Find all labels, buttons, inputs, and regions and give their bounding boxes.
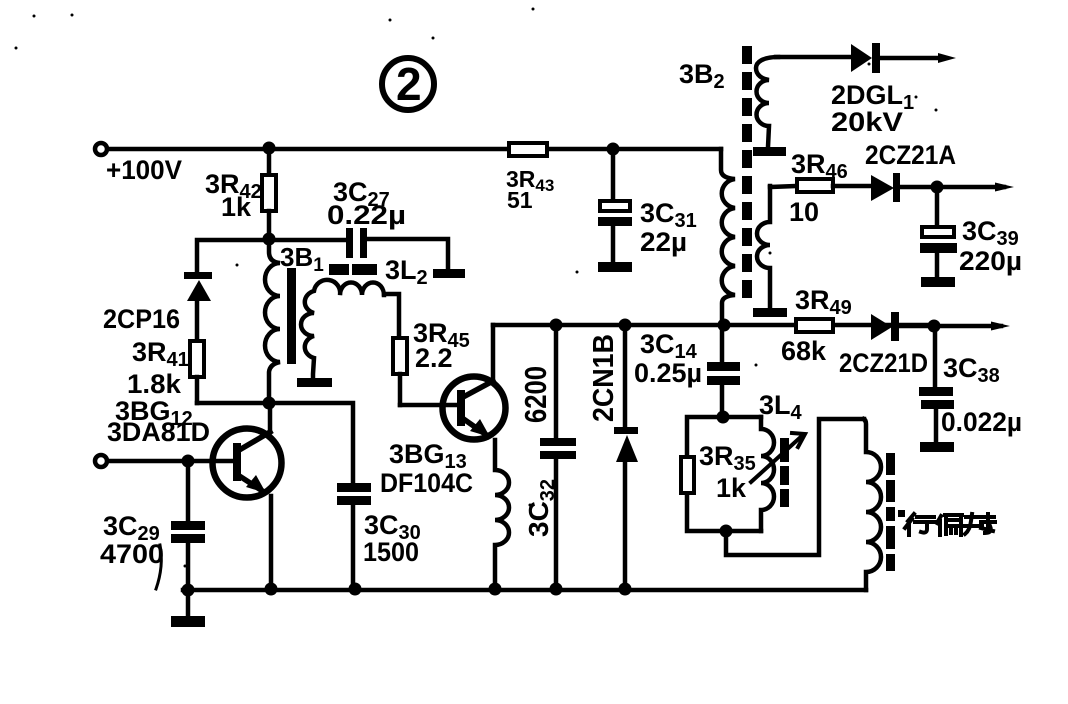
svg-text:2: 2 (396, 58, 422, 110)
svg-text:3L4: 3L4 (759, 390, 803, 424)
svg-text:3C38: 3C38 (943, 353, 1000, 387)
wire 3L2 to 3R45 (384, 294, 399, 338)
svg-text:3C32: 3C32 (523, 479, 559, 537)
node junction 3C32 top (550, 319, 563, 332)
svg-text:3R49: 3R49 (795, 285, 852, 319)
svg-text:2CZ21A: 2CZ21A (865, 140, 956, 170)
resistor 3R41 (127, 337, 204, 403)
resistor 3R49 (781, 285, 852, 366)
svg-text:22µ: 22µ (640, 227, 687, 257)
inductor emitter choke 3BG13 (495, 440, 509, 590)
wire 3R41 to node (197, 401, 269, 406)
capacitor 3C14 (634, 325, 740, 417)
node junction below 3R42 (263, 233, 276, 246)
wire loop to deflection coil (726, 419, 864, 555)
capacitor 3C29 (100, 461, 205, 590)
transformer 3B2 top winding (753, 57, 786, 156)
node junction loop bottom (720, 525, 733, 538)
svg-text:2.2: 2.2 (415, 343, 453, 373)
inductor 3L2 core and terminal bar (329, 255, 465, 289)
svg-text:3B2: 3B2 (679, 59, 725, 93)
node junction 2CN1B top (619, 319, 632, 332)
capacitor 3C31 (598, 149, 697, 272)
transformer 3B2 middle winding (753, 186, 787, 317)
resistor 3R45 (393, 318, 470, 405)
diode 2CN1B (588, 325, 638, 590)
svg-text:+100V: +100V (106, 155, 182, 185)
resistor 3R46 (770, 149, 871, 227)
resistor 3R43 (506, 143, 554, 213)
svg-text:220µ: 220µ (959, 246, 1022, 276)
resistor 3R35 and loop (681, 417, 761, 531)
svg-text:3C39: 3C39 (962, 216, 1019, 250)
diode 2CP16 (103, 272, 212, 341)
svg-text:1k: 1k (221, 192, 252, 222)
capacitor 3C39 (920, 187, 1022, 287)
node junction 4-way (263, 397, 276, 410)
label 行偏转 (hand drawn strokes) (905, 514, 995, 535)
resistor 3R42 (205, 149, 276, 238)
svg-text:2CP16: 2CP16 (103, 304, 180, 334)
svg-text:3DA81D: 3DA81D (107, 417, 210, 447)
transistor 3BG13 (380, 377, 506, 499)
terminal +100V (95, 143, 182, 185)
transformer 3B2 core (742, 46, 752, 298)
svg-text:0.22µ: 0.22µ (327, 200, 406, 230)
node junction at 3C31 (607, 143, 620, 156)
wire collector 3BG13 to mid rail (491, 325, 496, 381)
svg-text:1500: 1500 (363, 537, 419, 567)
svg-text:6200: 6200 (518, 366, 553, 423)
capacitor 3C27 (269, 177, 448, 270)
diode 2CZ21D (839, 312, 1010, 378)
wire node to 3C30 (269, 403, 353, 483)
wire collector 3BG12 (268, 403, 273, 432)
svg-text:2CN1B: 2CN1B (588, 334, 620, 422)
transformer 3B1 secondary winding (with 3L2 horizontal part) (301, 280, 384, 380)
svg-text:2CZ21D: 2CZ21D (839, 348, 928, 378)
wire mid rail (493, 323, 934, 328)
ground 3B1 secondary (297, 378, 332, 387)
wire input to base (108, 459, 233, 464)
terminal input (95, 455, 107, 467)
transformer 3B2 primary winding (721, 149, 735, 325)
svg-text:3R35: 3R35 (699, 441, 756, 475)
svg-text:3L2: 3L2 (385, 255, 428, 289)
transformer 3B1 primary winding (265, 240, 280, 403)
node junction loop top (717, 411, 730, 424)
transformer 3B1 core (287, 268, 296, 364)
capacitor 3C32 (518, 325, 576, 590)
capacitor 3C30 (337, 483, 421, 590)
wire 3R45 to 3BG13 base (400, 403, 457, 408)
junction dots bottom rail (182, 584, 195, 597)
svg-text:DF104C: DF104C (380, 468, 473, 498)
svg-text:0.25µ: 0.25µ (634, 358, 702, 388)
svg-text:1k: 1k (716, 473, 747, 503)
wire +100V rail (108, 147, 721, 152)
node junction 3B2/3C14 (718, 319, 731, 332)
svg-text:68k: 68k (781, 336, 827, 366)
svg-text:3R46: 3R46 (791, 149, 848, 183)
wire to 2CP16 branch (197, 240, 269, 272)
capacitor 3C38 (919, 326, 1022, 452)
svg-text:0.022µ: 0.022µ (941, 407, 1022, 437)
deflection coil (864, 419, 881, 590)
svg-text:1.8k: 1.8k (127, 369, 182, 399)
ground bottom rail (171, 590, 205, 627)
wire emitter 3BG12 (269, 496, 274, 590)
inductor 3L4 (751, 390, 805, 531)
node junction 3C39 (931, 181, 944, 194)
svg-text:51: 51 (507, 187, 533, 213)
svg-text:3R41: 3R41 (132, 337, 189, 371)
node mark deflection (898, 510, 905, 517)
transistor 3BG12 (107, 396, 282, 498)
svg-text:10: 10 (789, 197, 819, 227)
bottom rail (183, 588, 866, 593)
title circled 2 (382, 58, 434, 110)
node junction 3C38 (928, 320, 941, 333)
deflection coil core (886, 453, 895, 571)
node junction at 3R42 top (263, 142, 276, 155)
svg-text:20kV: 20kV (831, 107, 903, 137)
diode 2DGL1 (776, 43, 956, 137)
node junction base (182, 455, 195, 468)
svg-text:3B1: 3B1 (280, 242, 324, 276)
diode 2CZ21A (865, 140, 1014, 202)
svg-text:4700: 4700 (100, 539, 164, 569)
